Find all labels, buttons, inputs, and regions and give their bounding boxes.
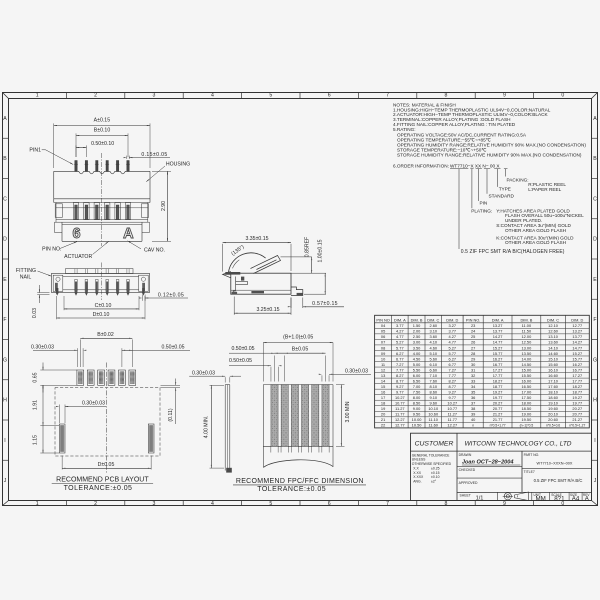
svg-text:19.10: 19.10 — [548, 401, 559, 406]
svg-text:18.10: 18.10 — [548, 389, 559, 394]
svg-text:13.77: 13.77 — [493, 329, 503, 334]
svg-text:9.10: 9.10 — [429, 395, 437, 400]
svg-text:15.10: 15.10 — [548, 356, 559, 361]
svg-text:FITTING: FITTING — [16, 268, 36, 274]
svg-text:2: 2 — [94, 501, 97, 507]
svg-text:DIM. A: DIM. A — [394, 317, 406, 322]
svg-text:2.60: 2.60 — [429, 323, 437, 328]
svg-text:4.27: 4.27 — [449, 334, 457, 339]
svg-text:4.00 MIN.: 4.00 MIN. — [203, 416, 209, 439]
svg-text:14.60: 14.60 — [548, 351, 559, 356]
svg-text:I: I — [594, 438, 595, 444]
svg-text:18.50: 18.50 — [522, 406, 533, 411]
svg-text:39: 39 — [471, 412, 475, 417]
svg-text:4.27: 4.27 — [396, 329, 404, 334]
svg-text:16.27: 16.27 — [493, 356, 503, 361]
svg-text:18.77: 18.77 — [493, 384, 503, 389]
svg-text:13.00: 13.00 — [522, 345, 533, 350]
svg-text:0.50±0.05: 0.50±0.05 — [161, 345, 184, 351]
svg-text:WITCONN TECHNOLOGY CO., LTD: WITCONN TECHNOLOGY CO., LTD — [464, 440, 571, 447]
svg-text:1: 1 — [36, 93, 39, 99]
svg-text:12: 12 — [381, 367, 385, 372]
svg-text:19.00: 19.00 — [522, 412, 533, 417]
svg-text:DIM. A: DIM. A — [492, 317, 504, 322]
svg-text:L:PAPER REEL: L:PAPER REEL — [528, 187, 561, 192]
svg-text:PIN NO: PIN NO — [376, 317, 389, 322]
svg-text:20.27: 20.27 — [493, 401, 503, 406]
svg-text:5.77: 5.77 — [396, 345, 404, 350]
svg-text:0.12±0.05: 0.12±0.05 — [158, 293, 184, 299]
svg-text:WT7710−X XX N− 00 X: WT7710−X XX N− 00 X — [450, 163, 500, 168]
svg-text:3: 3 — [153, 93, 156, 99]
svg-text:20.27: 20.27 — [572, 406, 582, 411]
svg-text:7.27: 7.27 — [396, 362, 404, 367]
svg-text:11.10: 11.10 — [429, 417, 439, 422]
svg-text:19.60: 19.60 — [548, 406, 559, 411]
svg-text:0.50±0.05: 0.50±0.05 — [231, 346, 254, 352]
svg-text:12.10: 12.10 — [548, 323, 559, 328]
svg-text:4: 4 — [211, 501, 214, 507]
svg-text:6.10: 6.10 — [429, 362, 437, 367]
svg-text:12.77: 12.77 — [395, 423, 405, 428]
svg-text:19: 19 — [381, 406, 385, 411]
svg-text:14.77: 14.77 — [572, 345, 582, 350]
svg-text:C: C — [593, 196, 597, 202]
svg-text:APPROVED: APPROVED — [459, 481, 478, 485]
svg-text:13.60: 13.60 — [548, 340, 559, 345]
svg-text:12.50: 12.50 — [522, 340, 533, 345]
svg-text:8.77: 8.77 — [396, 378, 404, 383]
svg-text:B±0.10: B±0.10 — [94, 128, 111, 134]
svg-text:D±0.05: D±0.05 — [98, 462, 115, 468]
svg-text:0.5 ZIF FPC SMT R/A B/C: 0.5 ZIF FPC SMT R/A B/C — [534, 478, 583, 483]
svg-text:H: H — [593, 398, 597, 404]
svg-text:17.77: 17.77 — [493, 373, 503, 378]
svg-text:E: E — [3, 277, 7, 283]
svg-text:6: 6 — [328, 93, 331, 99]
svg-text:18.27: 18.27 — [572, 384, 582, 389]
svg-text:E: E — [593, 277, 597, 283]
svg-text:10.00: 10.00 — [412, 417, 423, 422]
svg-text:4: 4 — [211, 93, 214, 99]
svg-text:5: 5 — [269, 501, 272, 507]
svg-text:14.27: 14.27 — [493, 334, 503, 339]
svg-text:17.77: 17.77 — [572, 378, 582, 383]
svg-text:n: n — [472, 424, 474, 428]
svg-text:11.50: 11.50 — [522, 329, 532, 334]
svg-text:20.77: 20.77 — [572, 412, 582, 417]
svg-text:10.27: 10.27 — [395, 395, 405, 400]
svg-text:RECOMMEND PCB LAYOUT: RECOMMEND PCB LAYOUT — [56, 477, 149, 484]
svg-text:1.91: 1.91 — [33, 400, 39, 410]
svg-text:DIM. B: DIM. B — [411, 317, 423, 322]
svg-text:3.77: 3.77 — [449, 329, 457, 334]
svg-text:8.50: 8.50 — [413, 401, 421, 406]
svg-text:6.00: 6.00 — [413, 373, 421, 378]
svg-text:20.10: 20.10 — [548, 412, 559, 417]
svg-text:DIM. D: DIM. D — [571, 317, 583, 322]
svg-text:15.60: 15.60 — [548, 362, 559, 367]
svg-text:37: 37 — [471, 401, 475, 406]
svg-text:(0.11): (0.11) — [168, 408, 174, 421]
svg-text:07: 07 — [381, 340, 385, 345]
svg-text:7.27: 7.27 — [449, 367, 457, 372]
svg-text:0.50±0.05: 0.50±0.05 — [229, 358, 252, 364]
svg-text:17.60: 17.60 — [548, 384, 559, 389]
svg-text:9.50: 9.50 — [413, 412, 421, 417]
svg-text:n*0.5+1.77: n*0.5+1.77 — [490, 424, 506, 428]
svg-text:14.27: 14.27 — [572, 340, 582, 345]
svg-text:9.60: 9.60 — [429, 401, 437, 406]
svg-text:10.10: 10.10 — [428, 406, 439, 411]
svg-text:CAV NO.: CAV NO. — [144, 247, 165, 253]
svg-text:14.10: 14.10 — [548, 345, 559, 350]
svg-text:11.60: 11.60 — [429, 423, 439, 428]
svg-text:17.10: 17.10 — [548, 378, 559, 383]
svg-text:C: C — [3, 196, 7, 202]
svg-text:STORAGE HUMIDITY RANGE:RELAT: STORAGE HUMIDITY RANGE:RELATIVE HUMIDITY… — [397, 153, 582, 158]
svg-text:2.50: 2.50 — [413, 334, 421, 339]
svg-text:16.60: 16.60 — [548, 373, 559, 378]
svg-text:STANDARD: STANDARD — [489, 194, 515, 199]
svg-text:F: F — [593, 317, 596, 323]
svg-text:4.77: 4.77 — [396, 334, 404, 339]
svg-text:15.27: 15.27 — [572, 351, 582, 356]
svg-text:16.77: 16.77 — [572, 367, 582, 372]
svg-text:5.60: 5.60 — [429, 356, 437, 361]
svg-text:8.60: 8.60 — [429, 389, 437, 394]
svg-text:16.27: 16.27 — [572, 362, 582, 367]
svg-text:19.50: 19.50 — [522, 417, 533, 422]
svg-text:1.50: 1.50 — [413, 323, 421, 328]
svg-text:A4: A4 — [572, 496, 580, 503]
svg-text:21.27: 21.27 — [493, 412, 503, 417]
svg-text:n*0.5+1.27: n*0.5+1.27 — [569, 424, 585, 428]
svg-text:11.77: 11.77 — [448, 417, 457, 422]
svg-text:0.65: 0.65 — [33, 372, 39, 382]
svg-text:05: 05 — [381, 329, 385, 334]
svg-text:11.27: 11.27 — [448, 412, 457, 417]
svg-text:3.50: 3.50 — [413, 345, 421, 350]
svg-text:7.77: 7.77 — [449, 373, 457, 378]
svg-text:10.60: 10.60 — [428, 412, 439, 417]
svg-text:35: 35 — [471, 389, 475, 394]
svg-text:DIM. D: DIM. D — [446, 317, 458, 322]
svg-text:6.77: 6.77 — [449, 362, 457, 367]
svg-text:8: 8 — [445, 93, 448, 99]
svg-text:18.77: 18.77 — [572, 389, 582, 394]
svg-text:29: 29 — [471, 356, 475, 361]
svg-text:I: I — [4, 438, 5, 444]
svg-text:08: 08 — [381, 345, 385, 350]
svg-text:3.77: 3.77 — [396, 323, 404, 328]
svg-text:DRAWN: DRAWN — [459, 453, 472, 457]
svg-text:11: 11 — [381, 362, 385, 367]
svg-text:0.30±0.03: 0.30±0.03 — [31, 345, 54, 351]
svg-text:36: 36 — [471, 395, 475, 400]
svg-text:1/1: 1/1 — [476, 496, 484, 502]
svg-text:4.50: 4.50 — [413, 356, 421, 361]
svg-text:1: 1 — [36, 501, 39, 507]
svg-text:D±0.10: D±0.10 — [93, 312, 110, 318]
svg-text:0.85REF: 0.85REF — [304, 237, 310, 257]
svg-text:19.77: 19.77 — [572, 401, 582, 406]
svg-text:17.27: 17.27 — [572, 373, 582, 378]
svg-text:G: G — [3, 357, 7, 363]
svg-text:TOLERANCE:±0.05: TOLERANCE:±0.05 — [257, 486, 326, 493]
svg-text:17.27: 17.27 — [493, 367, 503, 372]
svg-text:5.50: 5.50 — [413, 367, 421, 372]
svg-text:C±0.10: C±0.10 — [95, 303, 112, 309]
svg-text:PART NO.: PART NO. — [524, 453, 540, 457]
svg-text:J: J — [4, 478, 7, 484]
svg-text:9.27: 9.27 — [449, 389, 457, 394]
svg-text:5.00: 5.00 — [413, 362, 421, 367]
svg-text:5.27: 5.27 — [396, 340, 404, 345]
svg-text:15: 15 — [381, 384, 385, 389]
svg-text:HOUSING: HOUSING — [166, 161, 190, 167]
svg-text:DIM. B: DIM. B — [520, 317, 532, 322]
svg-text:38: 38 — [471, 406, 475, 411]
svg-text:PIN NO.: PIN NO. — [42, 247, 61, 253]
svg-text:7: 7 — [386, 93, 389, 99]
svg-text:7.50: 7.50 — [413, 389, 421, 394]
svg-text:ANG.: ANG. — [413, 479, 421, 483]
svg-text:7.10: 7.10 — [429, 373, 437, 378]
svg-text:WT7710−XXXN−00X: WT7710−XXXN−00X — [537, 461, 573, 465]
svg-text:12.60: 12.60 — [548, 329, 559, 334]
svg-text:09: 09 — [381, 351, 385, 356]
svg-text:06: 06 — [381, 334, 385, 339]
svg-text:TITLE7: TITLE7 — [524, 470, 535, 474]
svg-text:16.77: 16.77 — [493, 362, 503, 367]
svg-text:0.5 ZIF FPC SMT R/A B/C(H: 0.5 ZIF FPC SMT R/A B/C(HALOGEN FREE) — [461, 249, 565, 255]
svg-text:8.10: 8.10 — [429, 384, 437, 389]
svg-text:0.30±0.03: 0.30±0.03 — [192, 370, 215, 376]
svg-text:15.00: 15.00 — [522, 367, 533, 372]
svg-text:15.77: 15.77 — [493, 351, 503, 356]
svg-text:16.00: 16.00 — [522, 378, 533, 383]
svg-text:11.27: 11.27 — [395, 406, 404, 411]
svg-text:0.50±0.10: 0.50±0.10 — [91, 141, 114, 147]
svg-text:CUSTOMER: CUSTOMER — [415, 440, 454, 447]
svg-text:8.00: 8.00 — [413, 395, 421, 400]
svg-text:13.10: 13.10 — [548, 334, 559, 339]
svg-text:3.00: 3.00 — [413, 340, 421, 345]
svg-text:A: A — [123, 226, 134, 242]
svg-text:10.50: 10.50 — [412, 423, 423, 428]
svg-text:7.00: 7.00 — [413, 384, 421, 389]
svg-text:n*0.5+0.6: n*0.5+0.6 — [546, 424, 560, 428]
svg-text:3: 3 — [153, 501, 156, 507]
svg-text:6.60: 6.60 — [429, 367, 437, 372]
svg-text:0.30±0.03: 0.30±0.03 — [345, 369, 368, 375]
svg-text:3.27: 3.27 — [449, 323, 457, 328]
svg-text:15.50: 15.50 — [522, 373, 533, 378]
svg-text:12.27: 12.27 — [395, 417, 405, 422]
svg-text:7.60: 7.60 — [429, 378, 437, 383]
svg-text:10.77: 10.77 — [395, 401, 405, 406]
svg-text:0.15±0.05: 0.15±0.05 — [141, 152, 167, 158]
svg-text:25: 25 — [471, 334, 475, 339]
svg-text:21.77: 21.77 — [493, 417, 503, 422]
svg-text:MM: MM — [536, 496, 546, 503]
svg-text:9.27: 9.27 — [396, 384, 404, 389]
svg-text:A: A — [3, 116, 7, 122]
svg-text:D: D — [593, 237, 597, 243]
svg-text:±2°: ±2° — [431, 479, 437, 483]
svg-text:8.27: 8.27 — [396, 373, 404, 378]
svg-text:13: 13 — [381, 373, 385, 378]
svg-text:PIN1: PIN1 — [29, 148, 41, 154]
svg-text:2: 2 — [94, 93, 97, 99]
svg-text:12.77: 12.77 — [572, 323, 582, 328]
svg-text:6.27: 6.27 — [396, 351, 404, 356]
svg-text:5.27: 5.27 — [449, 345, 457, 350]
svg-text:PLATING:: PLATING: — [471, 208, 492, 213]
svg-text:6: 6 — [73, 226, 81, 242]
svg-text:21: 21 — [381, 417, 385, 422]
svg-text:10.27: 10.27 — [447, 401, 457, 406]
svg-text:B±0.02: B±0.02 — [97, 332, 114, 338]
svg-text:8.77: 8.77 — [449, 384, 457, 389]
svg-text:0: 0 — [561, 93, 564, 99]
svg-text:A±0.15: A±0.15 — [94, 118, 111, 124]
svg-text:B±0.05: B±0.05 — [292, 346, 309, 352]
svg-text:0.57±0.15: 0.57±0.15 — [312, 301, 338, 307]
svg-text:3.00 MIN: 3.00 MIN — [345, 401, 351, 422]
svg-text:15.77: 15.77 — [572, 356, 582, 361]
svg-text:18.27: 18.27 — [493, 378, 503, 383]
svg-text:8.27: 8.27 — [449, 378, 457, 383]
svg-text:5.77: 5.77 — [449, 351, 457, 356]
svg-text:6.77: 6.77 — [396, 356, 404, 361]
svg-text:14.50: 14.50 — [522, 362, 533, 367]
svg-text:14.77: 14.77 — [493, 340, 503, 345]
svg-text:3.25±0.15: 3.25±0.15 — [256, 307, 279, 313]
svg-text:22: 22 — [381, 423, 385, 428]
svg-text:16: 16 — [381, 389, 385, 394]
svg-text:26: 26 — [471, 340, 475, 345]
svg-text:B: B — [3, 156, 7, 162]
svg-text:17.50: 17.50 — [522, 395, 533, 400]
svg-text:PACKING:: PACKING: — [507, 177, 529, 182]
svg-text:13.50: 13.50 — [522, 351, 533, 356]
svg-text:SHEET: SHEET — [460, 493, 471, 497]
svg-text:6.27: 6.27 — [449, 356, 457, 361]
svg-text:10.77: 10.77 — [447, 406, 457, 411]
svg-text:15.27: 15.27 — [493, 345, 503, 350]
svg-text:NAIL: NAIL — [20, 275, 32, 281]
svg-text:14.00: 14.00 — [522, 356, 533, 361]
svg-text:PIN: PIN — [480, 201, 488, 206]
svg-text:2.90: 2.90 — [161, 201, 167, 211]
svg-text:18: 18 — [381, 401, 385, 406]
svg-text:0.30±0.03: 0.30±0.03 — [82, 401, 105, 407]
svg-text:9.77: 9.77 — [449, 395, 457, 400]
svg-text:8?1: 8?1 — [554, 496, 565, 503]
svg-text:6.50: 6.50 — [413, 378, 421, 383]
svg-text:CHECKED: CHECKED — [459, 468, 476, 472]
svg-text:19.27: 19.27 — [572, 395, 582, 400]
svg-text:7: 7 — [386, 501, 389, 507]
svg-text:19.77: 19.77 — [493, 395, 503, 400]
svg-text:5.10: 5.10 — [429, 351, 437, 356]
svg-text:0.03: 0.03 — [32, 308, 38, 318]
svg-text:(B+1.0)±0.05: (B+1.0)±0.05 — [283, 334, 313, 340]
svg-text:5: 5 — [269, 93, 272, 99]
svg-text:3.35±0.15: 3.35±0.15 — [245, 236, 268, 242]
svg-text:9: 9 — [503, 93, 506, 99]
svg-text:4.60: 4.60 — [429, 345, 437, 350]
svg-text:17.00: 17.00 — [522, 389, 533, 394]
svg-text:G: G — [593, 357, 597, 363]
svg-text:RECOMMEND FPC/FFC DIMENSION: RECOMMEND FPC/FFC DIMENSION — [236, 478, 364, 485]
svg-text:23: 23 — [471, 323, 475, 328]
svg-text:18.60: 18.60 — [548, 395, 559, 400]
svg-text:F: F — [3, 317, 6, 323]
svg-text:D: D — [3, 237, 7, 243]
svg-text:12.27: 12.27 — [447, 423, 457, 428]
svg-text:4.10: 4.10 — [429, 340, 437, 345]
svg-text:3.10: 3.10 — [429, 329, 437, 334]
svg-text:33: 33 — [471, 378, 475, 383]
svg-text:18.00: 18.00 — [522, 401, 533, 406]
svg-text:B: B — [593, 156, 597, 162]
svg-text:3.60: 3.60 — [429, 334, 437, 339]
svg-text:PIN NO.: PIN NO. — [466, 317, 480, 322]
svg-text:Joan OCT−28−2004: Joan OCT−28−2004 — [462, 460, 515, 466]
svg-text:16.50: 16.50 — [522, 384, 533, 389]
svg-text:32: 32 — [471, 373, 475, 378]
svg-text:6: 6 — [328, 501, 331, 507]
svg-text:19.27: 19.27 — [493, 389, 503, 394]
svg-text:1.15: 1.15 — [33, 435, 39, 445]
svg-text:J: J — [594, 478, 597, 484]
svg-text:9.77: 9.77 — [396, 389, 404, 394]
svg-text:4.00: 4.00 — [413, 351, 421, 356]
svg-text:13.27: 13.27 — [572, 329, 582, 334]
svg-text:A: A — [593, 116, 597, 122]
svg-text:ACTUATOR: ACTUATOR — [64, 254, 92, 260]
svg-text:OTHER AREA GOLD FLASH: OTHER AREA GOLD FLASH — [505, 240, 566, 245]
svg-text:(n−1)*0.5: (n−1)*0.5 — [520, 424, 534, 428]
svg-text:2.00: 2.00 — [413, 329, 421, 334]
svg-text:7.77: 7.77 — [396, 367, 404, 372]
svg-text:6.ORDER INFORMATION:: 6.ORDER INFORMATION: — [393, 163, 449, 168]
svg-text:TYPE: TYPE — [499, 187, 511, 192]
svg-text:13.77: 13.77 — [572, 334, 582, 339]
svg-text:9: 9 — [503, 501, 506, 507]
svg-text:TOLERANCE:±0.05: TOLERANCE:±0.05 — [64, 485, 133, 492]
svg-text:OTHERWISE SPECIFIED: OTHERWISE SPECIFIED — [412, 462, 452, 466]
svg-text:20.60: 20.60 — [548, 417, 559, 422]
svg-text:DIM. C: DIM. C — [547, 317, 559, 322]
svg-text:DIM. C: DIM. C — [427, 317, 439, 322]
svg-text:H: H — [3, 398, 7, 404]
svg-text:12.00: 12.00 — [522, 334, 533, 339]
svg-text:11.77: 11.77 — [395, 412, 404, 417]
svg-text:4.77: 4.77 — [449, 340, 457, 345]
svg-text:16.10: 16.10 — [548, 367, 559, 372]
svg-text:11.00: 11.00 — [522, 323, 532, 328]
svg-text:8: 8 — [445, 501, 448, 507]
svg-text:13.27: 13.27 — [493, 323, 503, 328]
svg-text:9.00: 9.00 — [413, 406, 421, 411]
svg-text:28: 28 — [471, 351, 475, 356]
svg-text:31: 31 — [471, 367, 475, 372]
svg-text:1.00±0.15: 1.00±0.15 — [318, 239, 324, 262]
